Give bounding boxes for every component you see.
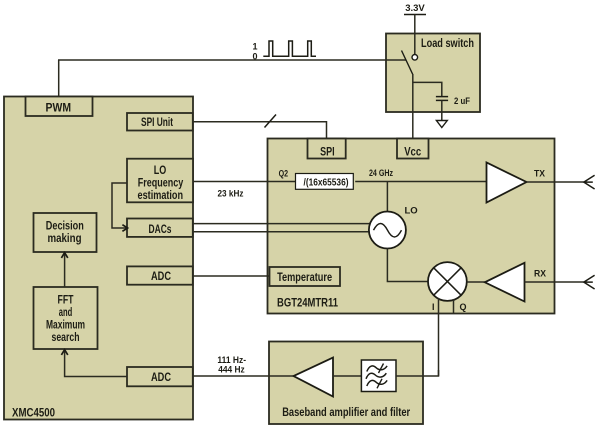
wire LO Frequency estimation to DACs: [112, 183, 127, 228]
svg-text:Frequency: Frequency: [138, 178, 184, 190]
svg-text:Q2: Q2: [279, 168, 289, 179]
svg-text:search: search: [52, 332, 80, 344]
wire DAC lower: [193, 231, 370, 233]
switch contact: [412, 55, 418, 61]
block BGT24MTR11: [268, 139, 555, 314]
filter: [361, 360, 396, 392]
wire TX to antenna: [527, 181, 584, 183]
wire Q: [453, 299, 455, 314]
svg-text:2 uF: 2 uF: [454, 96, 470, 107]
svg-text:I: I: [432, 302, 435, 312]
capacitor C 2uF: [436, 96, 448, 98]
wire ADC to FFT: [65, 350, 127, 377]
svg-text:Baseband amplifier and filter: Baseband amplifier and filter: [282, 407, 410, 419]
box ADC lower: [127, 367, 193, 386]
svg-text:Vcc: Vcc: [404, 147, 421, 159]
wire antenna to RX: [525, 281, 584, 283]
svg-text:Decision: Decision: [46, 221, 84, 233]
amp RX: [485, 263, 525, 302]
box PWM: [26, 97, 93, 117]
amp baseband: [294, 358, 334, 397]
svg-text:LO: LO: [154, 165, 167, 177]
svg-text:Q: Q: [460, 302, 467, 312]
wire ADC to Temperature: [193, 275, 271, 277]
block XMC4500: [4, 97, 193, 420]
svg-text:SPI Unit: SPI Unit: [141, 117, 173, 129]
box Decision making: [34, 213, 97, 252]
box SPI: [308, 139, 346, 159]
svg-text:444 Hz: 444 Hz: [218, 364, 245, 375]
svg-text:Maximum: Maximum: [46, 320, 85, 332]
wire LO to mixer: [387, 249, 428, 282]
wire DAC upper: [193, 223, 371, 225]
wire switch to Vcc: [412, 74, 414, 139]
svg-text:0: 0: [252, 52, 257, 62]
supply rail tick: [404, 14, 426, 16]
svg-text:TX: TX: [534, 169, 546, 180]
svg-text:Load switch: Load switch: [421, 38, 474, 50]
switch blade: [402, 51, 413, 75]
box Temperature: [270, 267, 341, 286]
svg-text:1: 1: [252, 42, 257, 52]
box DACs: [127, 219, 193, 237]
wire filter to mixer: [396, 370, 439, 376]
svg-text:DACs: DACs: [149, 224, 172, 236]
svg-text:RX: RX: [534, 269, 547, 280]
mixer: [428, 262, 467, 301]
svg-text:ADC: ADC: [151, 372, 171, 384]
svg-text:SPI: SPI: [320, 147, 335, 159]
bus slash: [265, 115, 277, 128]
wire amp to filter: [333, 375, 361, 377]
svg-text:estimation: estimation: [138, 190, 184, 202]
wire PWM to load switch: [58, 59, 406, 61]
box ADC upper: [127, 266, 193, 284]
svg-text:FFT: FFT: [58, 295, 74, 307]
svg-text:/(16x65536): /(16x65536): [304, 177, 349, 189]
ground: [436, 121, 447, 128]
svg-text:LO: LO: [405, 206, 418, 217]
wire SPI Unit to SPI: [193, 122, 327, 139]
box divider /(16x65536): [296, 174, 354, 190]
wire 23 kHz: [193, 181, 295, 183]
svg-text:23 kHz: 23 kHz: [218, 189, 244, 200]
svg-text:and: and: [59, 307, 73, 319]
svg-text:3.3V: 3.3V: [405, 3, 425, 14]
box Vcc: [397, 139, 429, 159]
block Load switch: [386, 34, 480, 113]
wire junction to LO: [386, 182, 388, 213]
svg-text:making: making: [48, 233, 82, 245]
box LO Frequency estimation: [127, 159, 193, 203]
box FFT and Maximum search: [34, 287, 98, 349]
wire FFT to Decision making: [64, 253, 66, 287]
wire capacitor branch: [413, 82, 442, 96]
wire PWM up: [58, 60, 60, 97]
box SPI Unit: [127, 113, 193, 131]
wire 24 GHz: [355, 181, 486, 183]
block Baseband amplifier and filter: [269, 342, 423, 425]
wire baseband to ADC: [193, 375, 294, 377]
oscillator LO: [369, 212, 406, 249]
svg-text:XMC4500: XMC4500: [12, 405, 55, 419]
wire capacitor to ground: [441, 100, 443, 120]
svg-text:ADC: ADC: [151, 271, 171, 283]
svg-text:24 GHz: 24 GHz: [369, 168, 393, 179]
antenna TX: [584, 175, 595, 189]
svg-text:PWM: PWM: [46, 103, 72, 115]
wire mixer to RX amp: [467, 281, 486, 283]
wire I: [438, 298, 440, 376]
wire 3.3V down: [414, 15, 416, 55]
svg-text:Temperature: Temperature: [277, 272, 332, 284]
pwm waveform: [263, 41, 316, 56]
amp TX: [487, 163, 527, 203]
antenna RX: [584, 275, 595, 289]
svg-text:BGT24MTR11: BGT24MTR11: [277, 296, 338, 310]
